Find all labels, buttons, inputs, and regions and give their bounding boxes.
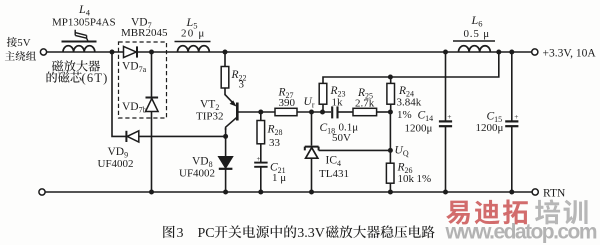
node R23 bottom junction [320,110,325,115]
label R26 tolerance 1% [417,173,432,185]
wire R24 top stub [390,77,392,83]
label 的磁芯(6T) [47,71,109,85]
svg-text:MP1305P4AS: MP1305P4AS [52,17,116,29]
wire IC4 anode to bottom rail [311,158,313,192]
transistor VT2 collector [226,117,237,130]
capacitor C15 [505,112,518,126]
svg-text:UF4002: UF4002 [179,168,215,180]
svg-text:5V: 5V [17,37,30,49]
node VD8 cathode on bottom rail [223,190,228,195]
label MBR2045 [121,27,168,39]
wire R23 to net [322,104,324,112]
label R24 [398,85,414,99]
wire C14 branch [445,52,447,121]
inductor L4 coil [63,46,95,52]
wire C15 to bottom rail [511,127,513,192]
svg-text:www.edatop.com: www.edatop.com [445,221,598,244]
svg-text:2.7k: 2.7k [355,98,375,110]
wire sense line [323,52,499,84]
svg-text:UF4002: UF4002 [98,158,134,170]
label UQ [395,145,409,159]
label R24 tolerance 1% [397,109,412,121]
wire VT2 base to R27 [237,111,275,113]
label MP1305P4AS [52,17,116,29]
svg-text:1200μ: 1200μ [405,123,433,135]
label 磁放大器 [52,60,100,71]
label R28 [267,124,283,138]
transistor VT2 emitter [225,95,237,107]
label C21 value 1u [272,172,286,184]
svg-text:0.5 μ: 0.5 μ [464,28,490,40]
inductor L5 value underline [175,41,211,43]
wire C18 to R25 [339,111,354,113]
wire Ur to IC4 [311,112,313,146]
wire VD7b branch [151,52,153,192]
op-amp IC4 TL431 symbol [305,147,319,159]
svg-text:MBR2045: MBR2045 [121,27,168,39]
label UF4002 (VD8) [179,168,215,180]
wire R28 to C21 [260,144,262,162]
svg-text:1%: 1% [397,109,412,121]
svg-text:(6T): (6T) [82,71,109,85]
label R22 value 3 [239,79,245,91]
node collector-VD9 junction [223,134,228,139]
label TL431 [319,168,349,180]
diode VD7b [146,98,159,112]
label L5 [186,15,198,31]
diode VD8 [219,157,233,169]
label TIP32 [196,111,224,123]
svg-text:50V: 50V [332,132,351,144]
node C21 on bottom rail [258,190,263,195]
node VD7a cathode junction [149,50,154,55]
transistor VT2 base bar [236,103,239,121]
label 接5V [7,37,31,49]
label C14 [418,110,434,124]
svg-text:3: 3 [177,226,184,241]
svg-text:3.3V: 3.3V [297,226,325,241]
diode VD7a [124,46,138,57]
label C18 voltage 50V [332,132,351,144]
node C15 on bottom rail [509,190,514,195]
caption 图3 PC开关电源中的3.3V磁放大器稳压电路 [163,225,434,241]
label R27 [278,87,294,101]
label R26 [397,162,413,176]
svg-text:33: 33 [269,137,281,149]
wire R28 branch [260,112,262,121]
label R28 value 33 [269,137,281,149]
node L5-R22 junction [223,50,228,55]
svg-text:1200μ: 1200μ [476,122,504,134]
resistor R22 [221,67,229,89]
resistor R23 [319,83,327,104]
label 主绕组 [5,51,36,61]
label 20u [181,28,205,40]
inductor L4 core line [62,41,97,43]
svg-text:3.84k: 3.84k [397,97,422,109]
label VT2 [200,99,219,113]
label C15 [487,111,503,125]
resistor R24 [387,83,395,104]
output terminal +3.3V [532,49,538,55]
node VD7b anode on bottom rail [149,190,154,195]
label R22 [231,69,247,83]
capacitor C21 [254,154,267,167]
label Ur [304,96,315,110]
inductor L6 coil [459,46,491,52]
svg-text:1%: 1% [417,173,432,185]
capacitor C14 [439,112,452,126]
label C14 value 1200u [405,123,433,135]
wire C14 to bottom rail [445,127,447,192]
wire IC4 reference line [319,149,391,151]
watermark www.edatop.com [445,221,598,244]
label C18 [320,122,336,136]
label VD9 [108,146,129,160]
svg-text:RTN: RTN [543,188,566,200]
wire R27 to Ur node [297,111,331,113]
inductor L5 coil [178,46,210,52]
input terminal (5V winding) top [40,49,46,55]
svg-text:390: 390 [279,97,296,109]
label R25 value 2.7k [355,98,375,110]
label C15 value 1200u [476,122,504,134]
wire R24 bottom stub [390,104,392,112]
label VD7b [122,101,147,115]
svg-text:1 μ: 1 μ [272,172,286,184]
capacitor C18 [332,106,337,118]
resistor R27 [275,108,297,115]
node UQ [388,148,393,153]
node R28 junction [258,110,263,115]
wire C15 branch [511,52,513,121]
label UF4002 (VD9) [98,158,134,170]
label R27 value 390 [279,97,296,109]
dashed outline VD7 package [119,42,167,118]
resistor R28 [257,121,265,144]
label IC4 [326,155,342,169]
svg-text:+: + [257,154,261,163]
input terminal (5V winding) bottom [39,189,45,195]
wire bottom rail [45,191,532,193]
watermark 易迪拓培训 [446,199,587,224]
wire R22 to VT2 emitter [224,88,226,95]
diode VD9 [126,131,138,142]
node IC4 anode on bottom rail [309,190,314,195]
node C15 junction [509,50,514,55]
wire R25 to R24 node [377,111,391,113]
label C18 value 0.1u [339,122,359,134]
svg-text:TIP32: TIP32 [196,111,224,123]
node L6 output junction [496,50,501,55]
label VD7 [131,17,152,31]
svg-text:+3.3V, 10A: +3.3V, 10A [543,48,597,60]
node R26 on bottom rail [388,190,393,195]
label R25 [357,87,373,101]
label L6 [471,13,483,29]
svg-text:+: + [447,112,451,121]
svg-text:+: + [514,112,518,121]
label R23 value 1k [332,97,344,109]
label VD7a [122,61,147,75]
label +3.3V 10A [543,48,597,60]
node C14 on bottom rail [443,190,448,195]
wire VT2 collector down [225,128,227,192]
wire R26 to bottom rail [389,183,391,192]
inductor L4 saturable-core mark [75,30,88,42]
wire top rail [47,51,532,53]
node R24 top junction [388,75,393,80]
wire R24 node down to R26 [389,112,391,164]
wire C21 to bottom rail [260,167,262,192]
resistor R25 [353,108,377,115]
node L4-VD7a junction [110,50,115,55]
label VD8 [192,156,213,170]
node Ur [309,110,314,115]
label R23 [330,85,346,99]
node R24 bottom junction [388,110,393,115]
output terminal RTN [532,189,538,195]
label R24 value 3.84k [397,97,422,109]
label C21 [270,162,286,176]
svg-text:3: 3 [239,79,245,91]
label RTN [543,188,566,200]
svg-text:10k: 10k [398,173,415,185]
label R26 value 10k [398,173,415,185]
svg-text:TL431: TL431 [319,168,349,180]
svg-text:20 μ: 20 μ [181,28,205,40]
svg-text:PC: PC [198,226,215,241]
wire R22 branch [224,52,226,67]
resistor R26 [386,163,394,183]
inductor L6 value underline [453,40,495,42]
label L4 [78,2,91,18]
node C14 junction [443,50,448,55]
svg-text:1k: 1k [332,97,344,109]
wire VD9 branch [112,52,226,136]
label 0.5u [464,28,490,40]
